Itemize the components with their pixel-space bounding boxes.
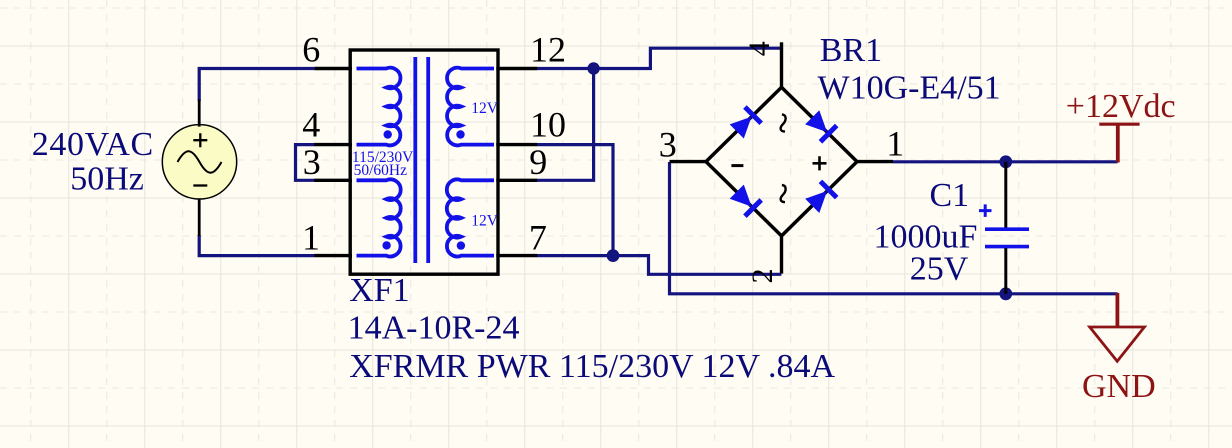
bridge rectifier BR1 body [706,87,857,236]
polarity dot secondary top [456,130,464,138]
polarity dot secondary bottom [457,241,465,249]
svg-text:9: 9 [529,142,547,182]
AC source bottom pin [198,198,201,236]
svg-text:1: 1 [302,217,320,257]
bridge pin 2 (bottom) [780,236,783,274]
svg-text:6: 6 [302,29,320,69]
ground symbol triangle [1090,327,1145,361]
svg-text:50Hz: 50Hz [70,161,144,198]
svg-text:4: 4 [302,105,320,145]
wire from transformer pin 7 to bridge pin 2 [537,256,781,275]
svg-text:4: 4 [743,41,776,56]
label 240VAC 50Hz [32,126,154,198]
transformer pin 7 [496,254,537,257]
bridge pin 1 (right) [857,160,893,163]
svg-text:12V: 12V [471,213,499,230]
bridge diode top-right [804,109,838,143]
transformer core lines [415,57,428,263]
transformer secondary winding top (pins 12-10) [447,68,494,146]
svg-text:7: 7 [529,217,547,257]
wire from transformer pin 12 to bridge pin 4 [537,48,781,68]
transformer pin 4 [314,143,352,146]
svg-text:2: 2 [746,269,779,284]
bridge plus mark [813,156,827,170]
svg-text:+12Vdc: +12Vdc [1066,88,1176,125]
svg-text:XFRMR PWR 115/230V 12V .84A: XFRMR PWR 115/230V 12V .84A [349,348,835,385]
transformer pin 6 [315,67,352,70]
polarity dot primary bottom [382,241,390,249]
transformer pin 12 [496,67,537,70]
transformer pin 3 [314,179,352,182]
svg-text:10: 10 [530,105,566,145]
svg-text:14A-10R-24: 14A-10R-24 [348,309,520,346]
svg-text:BR1: BR1 [820,32,882,69]
svg-text:12: 12 [530,29,566,69]
wire from AC source bottom to transformer pin 1 [199,235,314,256]
bridge pin 4 (top) [780,42,783,87]
junction at C1 positive lead [999,155,1012,168]
svg-text:25V: 25V [910,251,969,288]
transformer pin 9 [496,179,537,182]
bridge diode bottom-left [729,184,763,218]
junction on pin 7 net [607,249,620,262]
bridge AC tilde bottom [781,185,786,202]
svg-text:3: 3 [303,142,321,182]
svg-text:3: 3 [659,124,677,164]
wire from transformer pin 10 down to pin 7 net [537,145,613,256]
AC voltage source body [162,125,236,199]
svg-text:12V: 12V [471,100,499,117]
transformer XF1 body [350,50,498,274]
transformer secondary winding bottom (pins 9-7) [447,179,494,256]
svg-text:XF1: XF1 [349,272,409,309]
transformer pin 1 [314,254,352,257]
capacitor C1 bottom plate [985,245,1029,249]
junction at C1 negative lead [999,287,1012,300]
AC source plus sign [193,133,207,147]
bridge minus mark [731,164,743,167]
wire from bridge pin 1 to +12Vdc rail [893,160,1118,163]
svg-text:240VAC: 240VAC [32,126,154,163]
svg-text:C1: C1 [930,177,970,214]
capacitor C1 top plate [985,227,1029,231]
power symbol +12Vdc bar [1099,123,1139,126]
transformer primary winding bottom (pins 3-1) [357,179,401,256]
power symbol +12Vdc stem [1116,124,1120,162]
junction on pin 12 net [587,62,599,74]
capacitor C1 polarity plus [979,204,992,217]
transformer pin 10 [496,143,537,146]
AC source top pin [198,100,201,127]
polarity dot primary top [384,130,392,138]
bridge AC tilde top [781,114,786,131]
svg-text:W10G-E4/51: W10G-E4/51 [818,69,1001,106]
transformer rating label 115/230V 50/60Hz [352,149,414,179]
bridge diode top-left [729,105,763,139]
wire from pin 12 junction down to transformer pin 9 [537,69,594,181]
svg-text:GND: GND [1082,368,1156,405]
svg-text:50/60Hz: 50/60Hz [354,162,408,179]
svg-text:1: 1 [886,123,904,163]
AC source minus sign [193,184,207,186]
wire from AC source top to transformer pin 6 [199,69,315,102]
capacitor C1 bottom lead [1004,248,1007,294]
capacitor C1 top lead [1004,162,1007,228]
bridge diode bottom-right [804,180,838,214]
wire shorting transformer pins 4 and 3 [296,145,315,181]
bridge pin 3 (left) [670,160,707,163]
transformer primary winding top (pins 6-4) [357,68,401,146]
wire from bridge pin 3 to ground rail [670,162,1118,294]
ground symbol stem [1116,293,1120,327]
